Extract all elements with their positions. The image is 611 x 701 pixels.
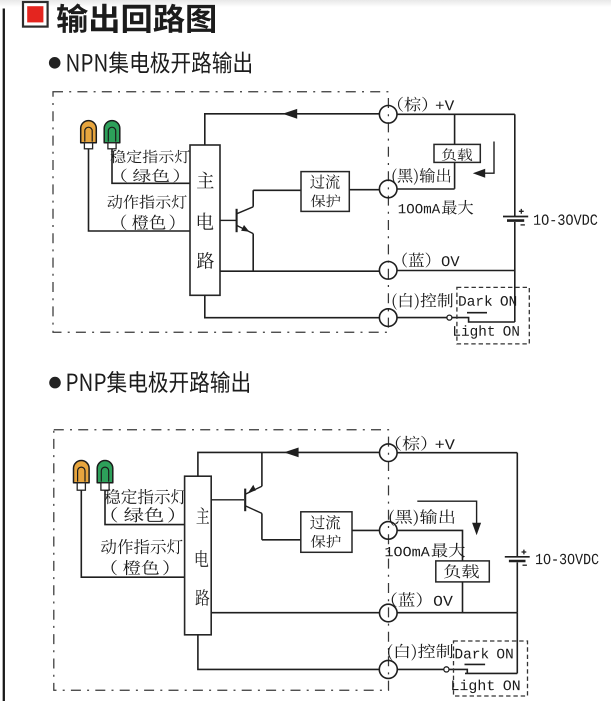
wire PNP main circuit to white terminal	[198, 635, 380, 670]
wire PNP collector to overcurrent box	[262, 539, 301, 541]
wire orange LED to main circuit	[89, 149, 191, 231]
wire collector to overcurrent box	[253, 189, 301, 191]
PNP label (白)控制	[388, 644, 453, 661]
label Light ON S1	[454, 325, 519, 339]
PNP label (黑)输出	[390, 509, 455, 526]
wire PNP brown terminal to supply rail	[397, 452, 518, 454]
arrow on PNP +V wire (current direction)	[284, 448, 299, 458]
PNP label Dark ON S2	[456, 648, 513, 659]
PNP label （橙色）	[112, 560, 169, 575]
NPN terminal (white) control	[379, 309, 397, 327]
wire load to output wire	[454, 162, 456, 188]
wire PNP rail down to switch S2	[516, 613, 518, 674]
wire rail down to switch S1	[514, 271, 516, 323]
PNP main circuit text 路	[196, 589, 210, 606]
label (黑)输出	[393, 168, 451, 185]
page left border line	[3, 9, 5, 701]
label 10-30VDC B1	[534, 214, 597, 225]
NPN section header NPN集电极开路输出	[68, 52, 252, 74]
wire PNP black terminal to load	[397, 530, 463, 561]
wire PNP main circuit 0V to blue terminal	[211, 612, 380, 614]
wire Q1 collector up to output line	[252, 190, 254, 271]
label Dark ON S1	[459, 295, 516, 306]
PNP main circuit text 电	[196, 550, 209, 567]
PNP label 10-30VDC B2	[536, 554, 599, 565]
NPN section bullet	[49, 57, 61, 69]
PNP terminal (white) control	[379, 660, 397, 678]
battery B1 10-30VDC	[503, 209, 528, 225]
PNP label Light ON S2	[452, 680, 519, 694]
PNP label （绿色）	[112, 507, 175, 523]
PNP load text 负载	[444, 564, 479, 578]
PNP label （蓝）0V	[392, 592, 453, 607]
wire PNP blue terminal to rail	[397, 612, 518, 614]
transistor Q1 NPN	[220, 207, 253, 234]
NPN load box 负载	[434, 144, 480, 162]
NPN terminal (brown) +V	[379, 106, 397, 124]
NPN switch S1 Dark ON contact	[467, 312, 487, 314]
PNP label 稳定指示灯	[105, 489, 187, 504]
PNP orange LED (action indicator)	[74, 461, 90, 491]
NPN load text 负载	[442, 148, 472, 161]
label 100mA最大	[399, 200, 474, 215]
wire black terminal to load	[397, 188, 455, 190]
PNP load box 负载	[436, 561, 490, 582]
wire main circuit to white terminal	[205, 295, 380, 317]
PNP switch select dashed box	[454, 641, 528, 696]
NPN switch S1 blade	[452, 318, 515, 322]
wire blue terminal to rail	[397, 270, 515, 272]
NPN load current bent arrow	[473, 142, 494, 178]
PNP switch S2 Dark ON contact	[465, 663, 486, 665]
PNP terminal (brown) +V	[380, 444, 398, 462]
transistor Q2 PNP	[211, 485, 262, 514]
NPN sensor enclosure dash-dot box	[53, 92, 388, 332]
PNP text 过流	[310, 515, 340, 530]
wire white terminal to switch contact	[397, 317, 447, 319]
NPN text 过流	[310, 174, 340, 189]
wire Q2 emitter to +V wire	[261, 452, 263, 486]
label 稳定指示灯	[110, 150, 189, 164]
wire green LED to main circuit	[112, 149, 190, 184]
wire overcurrent box to black terminal	[349, 189, 379, 191]
battery B2 10-30VDC	[505, 550, 530, 566]
wire brown terminal to supply rail	[397, 113, 515, 115]
PNP label （棕）+V	[396, 436, 455, 451]
NPN main circuit text 电	[198, 213, 214, 230]
label （橙色）	[121, 215, 174, 231]
title icon red square	[23, 2, 48, 27]
PNP load current bent arrow	[417, 501, 481, 535]
PNP text 保护	[311, 535, 341, 548]
NPN main circuit text 路	[197, 252, 214, 269]
PNP section bullet	[49, 377, 61, 389]
NPN text 保护	[311, 194, 341, 207]
PNP green LED (stability indicator)	[97, 461, 113, 491]
PNP terminal (black) output	[380, 522, 398, 540]
PNP main circuit box 主电路	[185, 476, 212, 635]
wire PNP supply rail down to battery	[516, 453, 518, 557]
label 动作指示灯	[107, 195, 186, 209]
NPN terminal (blue) 0V	[379, 262, 397, 280]
PNP sensor enclosure dash-dot box	[54, 430, 389, 691]
label （棕）+V	[398, 97, 454, 112]
label （绿色）	[121, 169, 179, 183]
PNP label 动作指示灯	[101, 539, 183, 554]
NPN orange LED (action indicator)	[81, 121, 97, 149]
NPN main circuit box 主电路	[190, 145, 220, 295]
NPN switch S1 input open contact	[447, 315, 452, 320]
wire load branch from +V	[454, 114, 456, 144]
label (白)控制	[393, 293, 453, 310]
wire emitter line to blue terminal	[220, 270, 380, 272]
wire Q2 collector down	[261, 513, 263, 539]
wire PNP main circuit to +V terminal	[198, 452, 380, 476]
NPN main circuit text 主	[197, 172, 214, 189]
page top gray strip	[0, 0, 611, 7]
PNP terminal (blue) 0V	[380, 604, 398, 622]
NPN green LED (stability indicator)	[104, 121, 120, 149]
label （蓝）0V	[402, 253, 459, 268]
NPN overcurrent protection box	[301, 172, 349, 212]
PNP switch S2 blade	[449, 669, 517, 673]
wire main circuit to +V terminal	[205, 114, 380, 145]
title text 输出回路图	[57, 4, 215, 34]
arrow on +V wire (current direction)	[283, 109, 298, 119]
wire PNP battery to 0V wire	[516, 562, 518, 612]
PNP main circuit text 主	[197, 507, 210, 523]
wire PNP overcurrent box to black terminal	[352, 529, 380, 531]
wire battery to 0V wire	[514, 222, 516, 271]
PNP section header PNP集电极开路输出	[68, 371, 250, 393]
wire PNP green LED to main circuit	[105, 490, 185, 524]
wire supply rail down to battery	[514, 114, 516, 216]
NPN switch select dashed box	[457, 287, 529, 344]
NPN terminal (black) output	[379, 180, 397, 198]
PNP label 100mA最大	[386, 543, 466, 558]
PNP switch S2 input open contact	[444, 667, 449, 672]
PNP overcurrent protection box	[301, 512, 352, 553]
wire PNP white terminal to switch contact	[397, 668, 444, 670]
wire PNP orange LED to main circuit	[81, 490, 184, 577]
wire PNP load to 0V wire	[462, 582, 464, 613]
